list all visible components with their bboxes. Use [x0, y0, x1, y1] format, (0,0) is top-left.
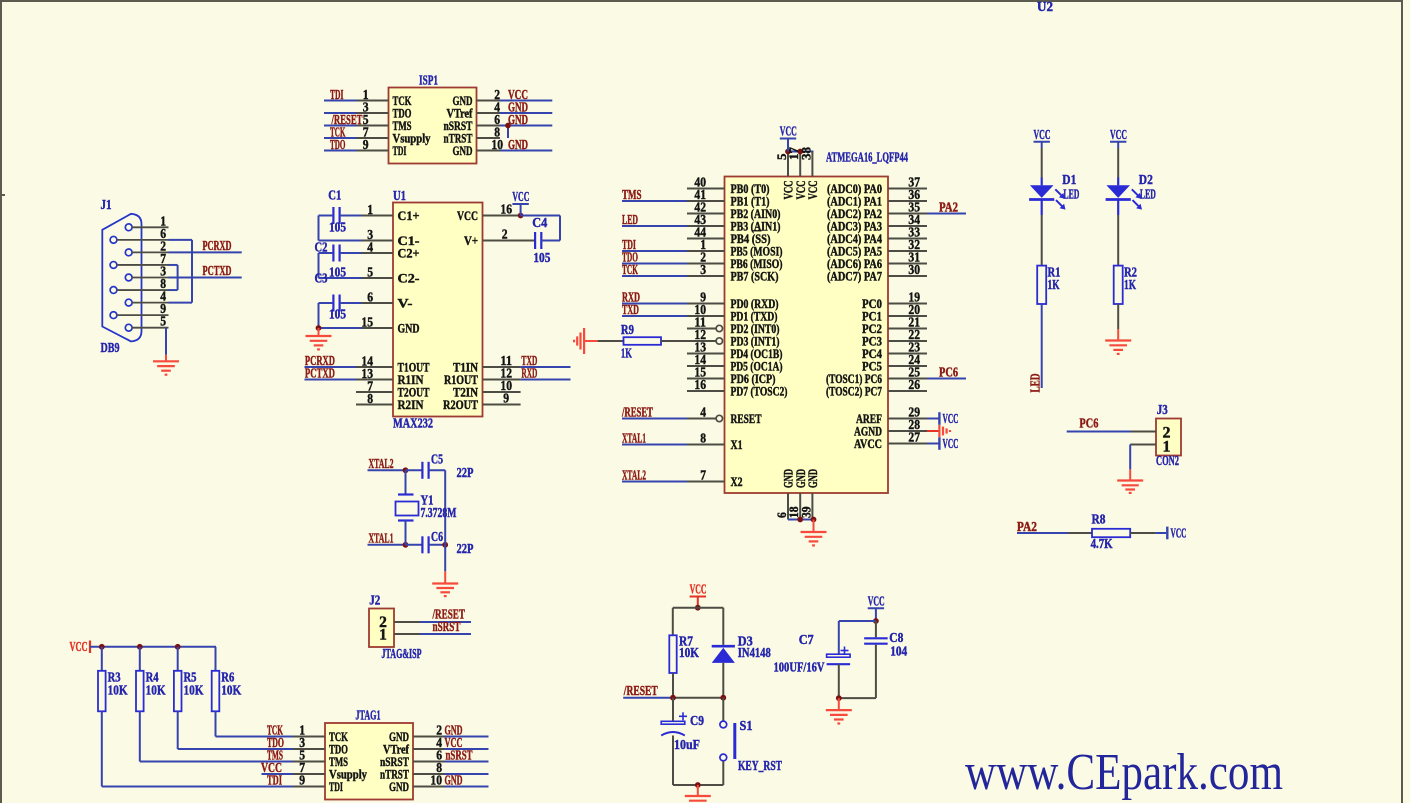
svg-text:R9: R9 — [621, 322, 634, 337]
svg-text:PC6: PC6 — [1079, 416, 1098, 431]
svg-text:S1: S1 — [740, 718, 753, 733]
svg-text:ISP1: ISP1 — [419, 73, 438, 88]
svg-text:J1: J1 — [101, 197, 112, 212]
svg-text:X1: X1 — [731, 438, 743, 452]
svg-text:VCC: VCC — [457, 208, 478, 223]
svg-text:LED: LED — [622, 212, 638, 227]
svg-text:C5: C5 — [431, 452, 443, 467]
svg-text:10uF: 10uF — [674, 737, 700, 752]
svg-text:PB7 (SCK): PB7 (SCK) — [731, 270, 779, 284]
svg-text:VCC: VCC — [1110, 127, 1127, 142]
svg-text:22P: 22P — [457, 465, 474, 480]
svg-text:26: 26 — [908, 377, 920, 392]
svg-text:C2: C2 — [315, 240, 328, 255]
svg-text:30: 30 — [908, 262, 920, 277]
svg-text:VCC: VCC — [70, 639, 88, 654]
svg-text:VCC: VCC — [943, 436, 959, 451]
svg-text:100UF/16V: 100UF/16V — [774, 660, 825, 675]
svg-text:R8: R8 — [1092, 512, 1106, 527]
svg-text:105: 105 — [329, 220, 346, 235]
svg-text:LED: LED — [1063, 187, 1079, 202]
svg-text:VCC: VCC — [1171, 526, 1187, 541]
svg-text:C9: C9 — [690, 713, 704, 728]
svg-text:DB9: DB9 — [101, 340, 120, 355]
svg-text:16: 16 — [500, 202, 512, 217]
svg-text:IN4148: IN4148 — [738, 645, 771, 660]
svg-text:VCC: VCC — [780, 124, 797, 139]
svg-text:3: 3 — [700, 262, 706, 277]
svg-text:/RESET: /RESET — [621, 405, 653, 420]
svg-text:PCRXD: PCRXD — [203, 238, 232, 253]
svg-text:PCTXD: PCTXD — [305, 366, 335, 381]
svg-text:C6: C6 — [431, 529, 443, 544]
svg-text:C1+: C1+ — [398, 208, 420, 223]
svg-text:1K: 1K — [1124, 277, 1136, 292]
svg-text:KEY_RST: KEY_RST — [738, 758, 782, 773]
svg-text:X2: X2 — [731, 475, 743, 489]
svg-text:10K: 10K — [679, 645, 699, 660]
svg-text:nSRST: nSRST — [446, 748, 473, 763]
svg-text:GND: GND — [508, 137, 528, 152]
svg-text:4.7K: 4.7K — [1091, 536, 1113, 551]
svg-text:R2OUT: R2OUT — [443, 397, 478, 412]
svg-text:105: 105 — [329, 307, 346, 322]
svg-text:5: 5 — [160, 314, 166, 329]
svg-text:105: 105 — [329, 265, 346, 280]
svg-text:10K: 10K — [184, 683, 204, 698]
svg-text:VCC: VCC — [868, 593, 885, 608]
svg-text:D1: D1 — [1062, 172, 1076, 187]
svg-text:GND: GND — [508, 112, 528, 127]
svg-text:7.3728M: 7.3728M — [421, 505, 457, 520]
svg-text:1K: 1K — [1048, 277, 1060, 292]
svg-text:RESET: RESET — [731, 412, 762, 426]
svg-text:PC6: PC6 — [939, 365, 958, 380]
svg-text:VCC: VCC — [943, 411, 959, 426]
svg-text:39: 39 — [798, 506, 813, 518]
svg-text:C3: C3 — [315, 271, 328, 286]
svg-text:105: 105 — [533, 250, 550, 265]
svg-text:TDI: TDI — [330, 87, 344, 102]
svg-text:38: 38 — [798, 147, 813, 161]
svg-text:GND: GND — [445, 773, 463, 788]
svg-text:VCC: VCC — [1034, 127, 1051, 142]
svg-text:JTAG1: JTAG1 — [356, 708, 381, 723]
svg-text:PA2: PA2 — [1017, 519, 1037, 534]
svg-text:10K: 10K — [146, 683, 166, 698]
svg-text:D2: D2 — [1139, 172, 1153, 187]
svg-text:9: 9 — [503, 391, 509, 406]
svg-text:CON2: CON2 — [1156, 453, 1179, 468]
svg-text:C2+: C2+ — [398, 246, 420, 261]
svg-text:9: 9 — [363, 137, 369, 152]
svg-text:www.CEpark.com: www.CEpark.com — [965, 744, 1283, 801]
svg-text:TDI: TDI — [393, 143, 407, 158]
svg-text:R2IN: R2IN — [398, 397, 425, 412]
svg-text:ATMEGA16_LQFP44: ATMEGA16_LQFP44 — [826, 150, 908, 165]
svg-text:4: 4 — [700, 405, 706, 420]
svg-text:9: 9 — [299, 773, 305, 788]
svg-text:VCC: VCC — [512, 189, 529, 204]
svg-text:TMS: TMS — [622, 187, 642, 202]
svg-text:TXD: TXD — [622, 302, 639, 317]
svg-text:PCTXD: PCTXD — [203, 263, 232, 278]
svg-text:10K: 10K — [108, 683, 128, 698]
svg-text:7: 7 — [700, 468, 706, 483]
svg-text:PA2: PA2 — [939, 200, 958, 215]
svg-text:XTAL1: XTAL1 — [622, 431, 646, 446]
svg-text:GND: GND — [806, 469, 820, 488]
svg-text:C1: C1 — [328, 188, 341, 203]
svg-text:TMS: TMS — [267, 748, 283, 763]
svg-text:TDI: TDI — [267, 773, 282, 788]
svg-text:LED: LED — [1028, 373, 1043, 392]
svg-text:J3: J3 — [1157, 402, 1168, 417]
svg-text:GND: GND — [389, 779, 409, 794]
svg-text:nSRST: nSRST — [433, 619, 461, 634]
svg-text:/RESET: /RESET — [623, 683, 658, 698]
svg-text:10: 10 — [430, 773, 442, 788]
svg-text:V+: V+ — [464, 233, 478, 248]
svg-text:U1: U1 — [393, 188, 406, 203]
svg-text:JTAG&ISP: JTAG&ISP — [382, 646, 422, 661]
svg-text:22P: 22P — [457, 541, 474, 556]
svg-text:LED: LED — [1140, 187, 1156, 202]
svg-text:10K: 10K — [221, 683, 241, 698]
svg-text:TDO: TDO — [330, 137, 346, 152]
svg-text:XTAL2: XTAL2 — [622, 468, 646, 483]
svg-text:VCC: VCC — [806, 181, 820, 200]
svg-text:TDI: TDI — [329, 779, 343, 794]
svg-text:10: 10 — [491, 137, 503, 152]
svg-text:V-: V- — [398, 296, 413, 311]
svg-text:27: 27 — [908, 430, 920, 445]
svg-text:AVCC: AVCC — [854, 437, 882, 451]
svg-text:MAX232: MAX232 — [393, 416, 433, 431]
svg-text:104: 104 — [890, 644, 907, 659]
svg-text:GND: GND — [398, 321, 420, 336]
svg-text:VCC: VCC — [690, 582, 707, 597]
svg-text:XTAL2: XTAL2 — [369, 456, 394, 471]
svg-text:GND: GND — [453, 143, 473, 158]
svg-text:8: 8 — [700, 431, 706, 446]
svg-text:XTAL1: XTAL1 — [369, 531, 394, 546]
svg-text:C7: C7 — [799, 632, 814, 647]
svg-text:1K: 1K — [621, 346, 632, 361]
svg-text:2: 2 — [502, 227, 508, 242]
svg-text:1: 1 — [379, 627, 387, 644]
svg-text:TCK: TCK — [622, 262, 638, 277]
svg-text:(TOSC2) PC7: (TOSC2) PC7 — [826, 385, 882, 399]
svg-text:16: 16 — [694, 377, 706, 392]
svg-text:RXD: RXD — [521, 366, 537, 381]
svg-text:C4: C4 — [532, 215, 547, 230]
svg-text:J2: J2 — [369, 593, 380, 608]
svg-text:PD7 (TOSC2): PD7 (TOSC2) — [731, 385, 788, 399]
svg-text:C2-: C2- — [398, 271, 420, 286]
svg-text:U2: U2 — [1037, 0, 1053, 14]
svg-text:(ADC7) PA7: (ADC7) PA7 — [827, 270, 882, 284]
